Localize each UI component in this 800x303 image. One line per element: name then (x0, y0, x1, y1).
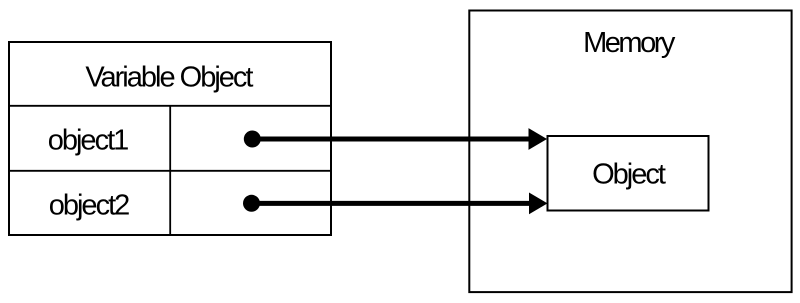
svg-text:object1: object1 (48, 124, 128, 156)
svg-text:Object: Object (592, 159, 666, 191)
table column divider line (169, 106, 171, 235)
pointer dot 2 (243, 195, 260, 212)
table header divider line (8, 105, 332, 107)
arrow 2 shaft (252, 201, 531, 206)
pointer dot 1 (244, 131, 261, 148)
memory box (469, 11, 791, 293)
variable object table outer box (9, 42, 331, 235)
arrow 2 head (529, 193, 548, 215)
svg-text:object2: object2 (49, 189, 129, 221)
table row divider line (8, 170, 332, 172)
svg-text:Variable Object: Variable Object (85, 62, 253, 94)
svg-text:Memory: Memory (583, 27, 676, 59)
arrow 1 shaft (252, 137, 530, 142)
object box (548, 136, 709, 211)
arrow 1 head (529, 128, 548, 150)
